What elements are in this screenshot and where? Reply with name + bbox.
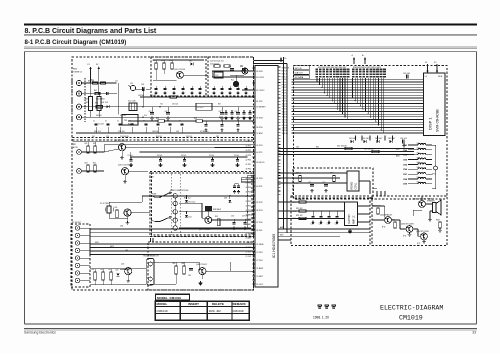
svg-text:R06: R06 (95, 103, 98, 105)
resistor R02 (94, 90, 100, 95)
svg-text:CX2: CX2 (215, 75, 218, 77)
node SVC label (396, 149, 401, 157)
svg-text:C09 104: C09 104 (120, 115, 126, 117)
mid cap-res drops (128, 155, 240, 167)
svg-text:TH01 THERMISTOR: TH01 THERMISTOR (143, 256, 159, 258)
svg-text:C18: C18 (106, 136, 109, 138)
svg-text:Q01 KTC3198: Q01 KTC3198 (174, 69, 185, 71)
svg-text:TUNER 04: TUNER 04 (73, 71, 82, 73)
component block X02 (196, 103, 212, 110)
drawing number (399, 315, 423, 322)
svg-text:R32 102: R32 102 (296, 208, 302, 210)
svg-text:Q301 KTC3198: Q301 KTC3198 (413, 198, 426, 200)
label cluster bottom tuner (94, 130, 209, 133)
svg-text:33: 33 (472, 330, 476, 334)
capacitor C23 (228, 66, 234, 70)
wire q04 out (131, 212, 150, 214)
switch exit wires (241, 175, 255, 182)
audio coupling caps (311, 211, 339, 226)
key matrix dashed box (294, 66, 448, 200)
resistor R302 (391, 220, 396, 228)
resistor R08 (156, 118, 165, 122)
transistor Q01 (174, 69, 185, 78)
svg-text:101+: 101+ (417, 167, 421, 169)
IF amp dashed box (151, 57, 206, 96)
svg-text:SW1 SW2 SW3 SW4 SW5 SW6 SW7: SW1 SW2 SW3 SW4 SW5 SW6 SW7 (318, 67, 346, 69)
svg-text:R08: R08 (156, 118, 159, 120)
svg-text:C03: C03 (141, 84, 144, 86)
svg-text:R12: R12 (161, 60, 164, 62)
audio IC U301 body (345, 202, 358, 225)
svg-text:R42: R42 (93, 143, 96, 145)
svg-text:FL1: FL1 (231, 80, 234, 82)
resistor R33 (296, 215, 306, 219)
vertical link wires (151, 238, 154, 242)
amp wires b (391, 220, 406, 229)
title rule mid (24, 34, 477, 35)
key grid caption 2 (353, 67, 381, 69)
svg-text:D53: D53 (224, 198, 227, 200)
svg-text:35 P43: 35 P43 (246, 192, 251, 194)
junction dots tuner (142, 106, 220, 118)
svg-text:AC/IN: AC/IN (73, 146, 78, 149)
ground q02 (120, 151, 124, 160)
svg-text:C61: C61 (296, 147, 299, 149)
resistor R22 (224, 65, 230, 67)
svg-text:35 REM: 35 REM (256, 244, 264, 246)
wire q01 out (183, 74, 208, 76)
svg-text:VT AFT B+: VT AFT B+ (200, 130, 209, 133)
svg-text:C5 104: C5 104 (157, 155, 162, 157)
svg-text:104: 104 (92, 136, 95, 138)
svg-text:C32: C32 (327, 224, 330, 226)
svg-text:R72: R72 (330, 173, 333, 175)
svg-text:38 P33: 38 P33 (256, 210, 263, 212)
footer left (24, 330, 56, 334)
transistor Q05 (121, 264, 132, 275)
resistor R12 (161, 60, 165, 69)
tuner mid labels (88, 81, 221, 117)
IF amp cap row (154, 86, 201, 95)
wire rails mid (73, 142, 256, 146)
svg-text:103: 103 (102, 102, 105, 104)
inductor FL1 (231, 80, 239, 87)
svg-text:C10: C10 (144, 115, 147, 117)
display supply arrow 1 (425, 62, 429, 73)
transistor Q303 (401, 224, 414, 238)
svg-text:44 P21: 44 P21 (256, 152, 263, 154)
wire y97 (140, 95, 255, 98)
matrix left label boxes (294, 66, 310, 79)
stamp marks (318, 305, 335, 309)
op-amp U1 micom IC1 body (255, 66, 278, 288)
speaker SP1 (427, 198, 441, 215)
svg-text:101+: 101+ (417, 162, 421, 164)
wire p1 vert (89, 228, 91, 255)
wire b rail (153, 60, 204, 63)
svg-text:101+: 101+ (417, 177, 421, 179)
svg-text:KEY2: KEY2 (110, 246, 114, 248)
svg-text:TUNE 5V: TUNE 5V (282, 68, 290, 70)
wire tuner row3 (82, 106, 255, 108)
svg-text:39 P32: 39 P32 (256, 202, 263, 204)
svg-text:64 3VD: 64 3VD (256, 71, 263, 73)
resistor R81 (92, 269, 97, 280)
svg-text:R01 220: R01 220 (88, 81, 94, 83)
svg-text:T01: T01 (124, 120, 127, 122)
resistor R62 group (364, 148, 379, 152)
svg-text:C05: C05 (149, 111, 152, 113)
svg-text:33 P51: 33 P51 (246, 201, 251, 203)
svg-text:C23: C23 (228, 66, 231, 68)
ceramic filter X01 (128, 101, 137, 111)
resistor R71 (296, 173, 301, 182)
transistor Q06 (196, 264, 207, 275)
svg-text:101+: 101+ (417, 172, 421, 174)
svg-text:MODEL :CM1019: MODEL :CM1019 (157, 296, 181, 300)
tuner terminals (76, 80, 81, 120)
svg-text:C1: C1 (105, 121, 107, 123)
audio pre dashed box (291, 196, 370, 245)
wire vt line (116, 80, 143, 107)
svg-text:R306: R306 (391, 220, 395, 222)
svg-text:R07: R07 (218, 104, 221, 106)
svg-text:C14 104: C14 104 (118, 131, 124, 133)
capacitor C56 (231, 216, 236, 230)
svg-text:C85: C85 (188, 275, 191, 277)
svg-text:C33: C33 (335, 224, 338, 226)
section title (25, 39, 127, 46)
svg-text:41 P30: 41 P30 (256, 178, 263, 180)
svg-text:21 OUT: 21 OUT (246, 256, 252, 258)
resistor R44 (93, 163, 96, 173)
switch IC KIA (206, 207, 222, 212)
svg-text:R03: R03 (85, 99, 88, 101)
thermistor section dashed box (148, 242, 254, 290)
diode D81 (116, 270, 120, 277)
crystal X2 group (100, 203, 113, 213)
key name label grid (316, 69, 386, 78)
svg-text:101+: 101+ (417, 143, 421, 145)
diode D51 (185, 196, 195, 204)
svg-text:101+: 101+ (417, 148, 421, 150)
compartment divider dashed (73, 137, 254, 140)
wire tuner bottom rail (76, 132, 253, 134)
svg-text:R13: R13 (169, 60, 172, 62)
ground q03 (123, 175, 127, 184)
svg-text:CF1: CF1 (130, 83, 133, 85)
transistor Q304 (416, 231, 429, 245)
tuner bottom label row (92, 136, 219, 138)
wire p2 b (81, 170, 104, 172)
svg-text:D41 KEY: D41 KEY (362, 138, 370, 140)
P1 wire labels (95, 242, 129, 252)
svg-text:25 AMP: 25 AMP (246, 237, 253, 240)
svg-text:R02: R02 (94, 90, 97, 92)
resistor R31 (296, 199, 306, 203)
switch contact circles (173, 194, 177, 231)
svg-text:69 OUT: 69 OUT (256, 284, 264, 286)
svg-text:R10 473: R10 473 (128, 124, 134, 126)
svg-text:D02: D02 (189, 61, 192, 63)
resistor R59 (215, 216, 220, 226)
title rule lower (24, 47, 477, 49)
resistor R42 (93, 143, 96, 153)
amp feed wires (373, 188, 385, 196)
audio bottom rails (291, 229, 370, 236)
diode D53 (224, 196, 231, 203)
svg-text:70 MUT: 70 MUT (256, 276, 264, 278)
svg-text:58 P00: 58 P00 (256, 127, 263, 129)
svg-text:P1 FRONT: P1 FRONT (72, 222, 82, 224)
resistor R83 (109, 269, 113, 280)
transistor Q03 (118, 165, 129, 175)
svg-text:22 VOL: 22 VOL (246, 251, 252, 253)
inductor L02 (101, 82, 106, 84)
svg-text:45 P20: 45 P20 (256, 145, 263, 147)
resistor R01 (91, 80, 98, 85)
svg-text:(FT): (FT) (417, 243, 421, 245)
antenna dashed outline (72, 78, 85, 122)
svg-text:101+: 101+ (417, 182, 421, 184)
svg-text:R11: R11 (153, 60, 156, 62)
svg-text:C11 223: C11 223 (98, 124, 104, 126)
svg-text:R44: R44 (93, 163, 96, 165)
svg-text:D62 1SS133: D62 1SS133 (364, 148, 374, 150)
svg-text:C72: C72 (322, 182, 325, 184)
svg-text:KIA7035: KIA7035 (348, 214, 351, 224)
svg-text:SVC: SVC (396, 149, 401, 151)
capacitor C07 (219, 107, 224, 120)
resistor R13 (169, 60, 173, 69)
switch vertical bus (247, 175, 248, 228)
svg-text:ELECTRIC-DIAGRAM: ELECTRIC-DIAGRAM (380, 305, 443, 312)
svg-text:C31: C31 (319, 224, 322, 226)
svg-text:104 104: 104 104 (152, 131, 158, 133)
wire tuner row1 (82, 82, 116, 84)
switch lever 2 (155, 216, 171, 222)
svg-text:57 AN2: 57 AN2 (256, 132, 263, 135)
switch top caps (233, 184, 240, 193)
connector P1 label (72, 222, 82, 224)
svg-text:Q05: Q05 (121, 264, 124, 266)
svg-text:R59: R59 (215, 216, 218, 218)
resistor R41 (85, 143, 90, 153)
svg-text:R305 102: R305 102 (373, 206, 380, 208)
svg-text:KEY IN: KEY IN (295, 68, 302, 70)
svg-text:D43 KEY: D43 KEY (388, 138, 396, 140)
capacitor C08 (235, 107, 240, 120)
matrix to key-diode drops (356, 136, 393, 141)
svg-text:CON1: CON1 (355, 182, 358, 189)
connector TU1 label (73, 69, 82, 74)
wire th rail bot (90, 280, 146, 285)
wire aft (128, 121, 253, 131)
svg-text:40 P32: 40 P32 (246, 169, 251, 171)
IC1 left pin numbers (246, 141, 253, 258)
transistor Q07 (199, 217, 212, 231)
svg-text:SVM-05H409B: SVM-05H409B (436, 109, 440, 132)
svg-text:71 AMP: 71 AMP (256, 267, 264, 270)
wire xtal (109, 202, 128, 218)
wire xtal rail (128, 196, 255, 202)
svg-text:101+: 101+ (417, 153, 421, 155)
function switch dashed box (150, 172, 254, 237)
capacitor C57 (242, 216, 248, 230)
parts table grid (155, 301, 249, 320)
ground q06 (199, 275, 203, 285)
svg-text:CX 455: CX 455 (197, 107, 203, 109)
key grid caption 1 (318, 67, 346, 69)
svg-text:33P: 33P (216, 136, 219, 138)
IC1 right pin stubs (278, 67, 281, 194)
svg-text:C20 104: C20 104 (186, 136, 192, 138)
svg-text:SW01 FUNCTION 4D: SW01 FUNCTION 4D (170, 190, 189, 192)
long vertical bus b (286, 64, 288, 233)
wire mid long2 (130, 152, 247, 157)
ground amp q3 (408, 233, 412, 237)
resistor R11 (153, 60, 158, 69)
drawing title (380, 305, 443, 312)
resistor R21 (214, 65, 220, 67)
svg-text:R43: R43 (85, 163, 88, 165)
detector dashed box (208, 57, 254, 96)
svg-text:REMARK: REMARK (233, 302, 247, 306)
resistor R43 (85, 163, 90, 173)
switch wires lv (151, 196, 155, 222)
wire b mid (153, 69, 177, 80)
svg-text:32 P52: 32 P52 (246, 205, 251, 207)
capacitor C24 (240, 66, 246, 70)
ground q05 (126, 275, 130, 283)
matrix bus wires (292, 79, 424, 133)
wire r03 r04 (91, 83, 100, 117)
key matrix drops group2 (352, 78, 384, 133)
svg-text:Q302 KTA1267: Q302 KTA1267 (380, 213, 392, 216)
svg-text:T01: T01 (160, 104, 163, 106)
IC1 pin name labels (256, 71, 266, 286)
key diodes row (349, 138, 396, 143)
table header REMARK (233, 302, 247, 306)
wire osc2 (212, 71, 255, 77)
svg-text:Q04: Q04 (120, 226, 123, 228)
svg-text:101+: 101+ (417, 157, 421, 159)
svg-text:L01: L01 (115, 81, 118, 83)
svg-text:SEG 2: SEG 2 (282, 77, 287, 79)
P1 terminals (75, 226, 79, 283)
wire q02 out (126, 146, 255, 148)
key matrix drops group1 (316, 78, 348, 120)
svg-text:36 P42: 36 P42 (246, 187, 251, 189)
remocon wires (278, 173, 347, 183)
audio in labels (293, 202, 298, 220)
wire p41 (246, 96, 255, 98)
svg-text:Q02 KTC3198: Q02 KTC3198 (114, 140, 125, 142)
svg-text:C1: C1 (93, 121, 95, 123)
svg-text:CM1019: CM1019 (157, 309, 168, 313)
svg-text:40 P31: 40 P31 (256, 186, 263, 188)
svg-text:D81: D81 (116, 270, 119, 272)
wire tuner row4 (82, 116, 253, 118)
svg-text:73 P63: 73 P63 (256, 252, 263, 254)
table header DELETE (212, 302, 224, 306)
svg-text:R85: R85 (173, 263, 176, 265)
svg-text:36 P61: 36 P61 (256, 230, 263, 232)
connector P2 label (73, 144, 78, 149)
connector P1 dashed box (71, 224, 90, 287)
resistor R72 (330, 173, 335, 182)
svg-text:DISP 1: DISP 1 (428, 117, 433, 130)
svg-text:CM1019: CM1019 (233, 309, 244, 313)
resistor R303 (436, 220, 441, 228)
svg-text:41 P31: 41 P31 (246, 164, 251, 166)
capacitor C06 (165, 107, 170, 120)
svg-text:1998. 1. 20: 1998. 1. 20 (313, 315, 329, 319)
wire tuner row2 (82, 93, 117, 95)
svg-text:34 P50: 34 P50 (246, 196, 251, 198)
svg-text:REMO: REMO (350, 182, 354, 190)
svg-text:R51: R51 (115, 207, 118, 209)
P1 bus wires (90, 229, 255, 236)
audio bottom wires (278, 226, 291, 240)
resistor R32 (296, 208, 306, 212)
svg-text:C71: C71 (308, 182, 311, 184)
svg-text:26 REM: 26 REM (246, 233, 253, 235)
svg-text:R307: R307 (436, 220, 440, 222)
svg-text:+5: +5 (351, 55, 353, 57)
svg-text:63 OSC1: 63 OSC1 (256, 77, 265, 79)
switch lever 1 (152, 192, 171, 198)
transistor Q302 (380, 213, 392, 228)
svg-text:(FT): (FT) (382, 227, 386, 229)
capacitor C02 (107, 92, 109, 95)
svg-text:C31 104: C31 104 (172, 104, 178, 106)
svg-text:R14 102: R14 102 (156, 136, 162, 138)
svg-text:SW8 SW9 SW10 SW11 SW12 SW13: SW8 SW9 SW10 SW11 SW12 SW13 (353, 67, 381, 69)
capacitor C72 (322, 182, 328, 193)
svg-text:62 OSC2: 62 OSC2 (256, 90, 265, 92)
IF box B1 (118, 83, 138, 125)
IC1 left pin stubs (253, 68, 256, 284)
svg-text:C5 104: C5 104 (181, 155, 186, 157)
wire bus join a (280, 148, 288, 152)
svg-text:S34 GD: S34 GD (282, 133, 289, 135)
svg-text:D20- J02: D20- J02 (209, 309, 221, 313)
resistor R301 (373, 206, 380, 214)
svg-text:Q03 KTC3198: Q03 KTC3198 (118, 165, 129, 167)
svg-text:R71: R71 (296, 173, 299, 175)
transistor Q21 (240, 66, 248, 75)
audio in wires (278, 202, 345, 218)
diode D01 (105, 102, 109, 108)
svg-text:42 P30: 42 P30 (246, 159, 251, 161)
P1 to IC wires (90, 244, 255, 255)
svg-text:C15: C15 (176, 131, 179, 133)
svg-text:R58 MELF: R58 MELF (213, 209, 221, 211)
svg-text:R53 1C2: R53 1C2 (184, 198, 191, 200)
svg-text:C5 104: C5 104 (128, 155, 133, 157)
svg-text:P.SW: P.SW (152, 194, 157, 196)
wire q03 out (103, 151, 148, 171)
ground amp r (438, 229, 442, 233)
diode D52 (185, 212, 192, 219)
svg-text:Q303 KTC3198: Q303 KTC3198 (401, 224, 414, 226)
capacitor CF1 (130, 83, 136, 91)
svg-text:39 P33: 39 P33 (246, 173, 251, 175)
page title (25, 28, 157, 35)
svg-text:5.0: 5.0 (425, 76, 427, 78)
capacitor C34 (400, 138, 407, 147)
